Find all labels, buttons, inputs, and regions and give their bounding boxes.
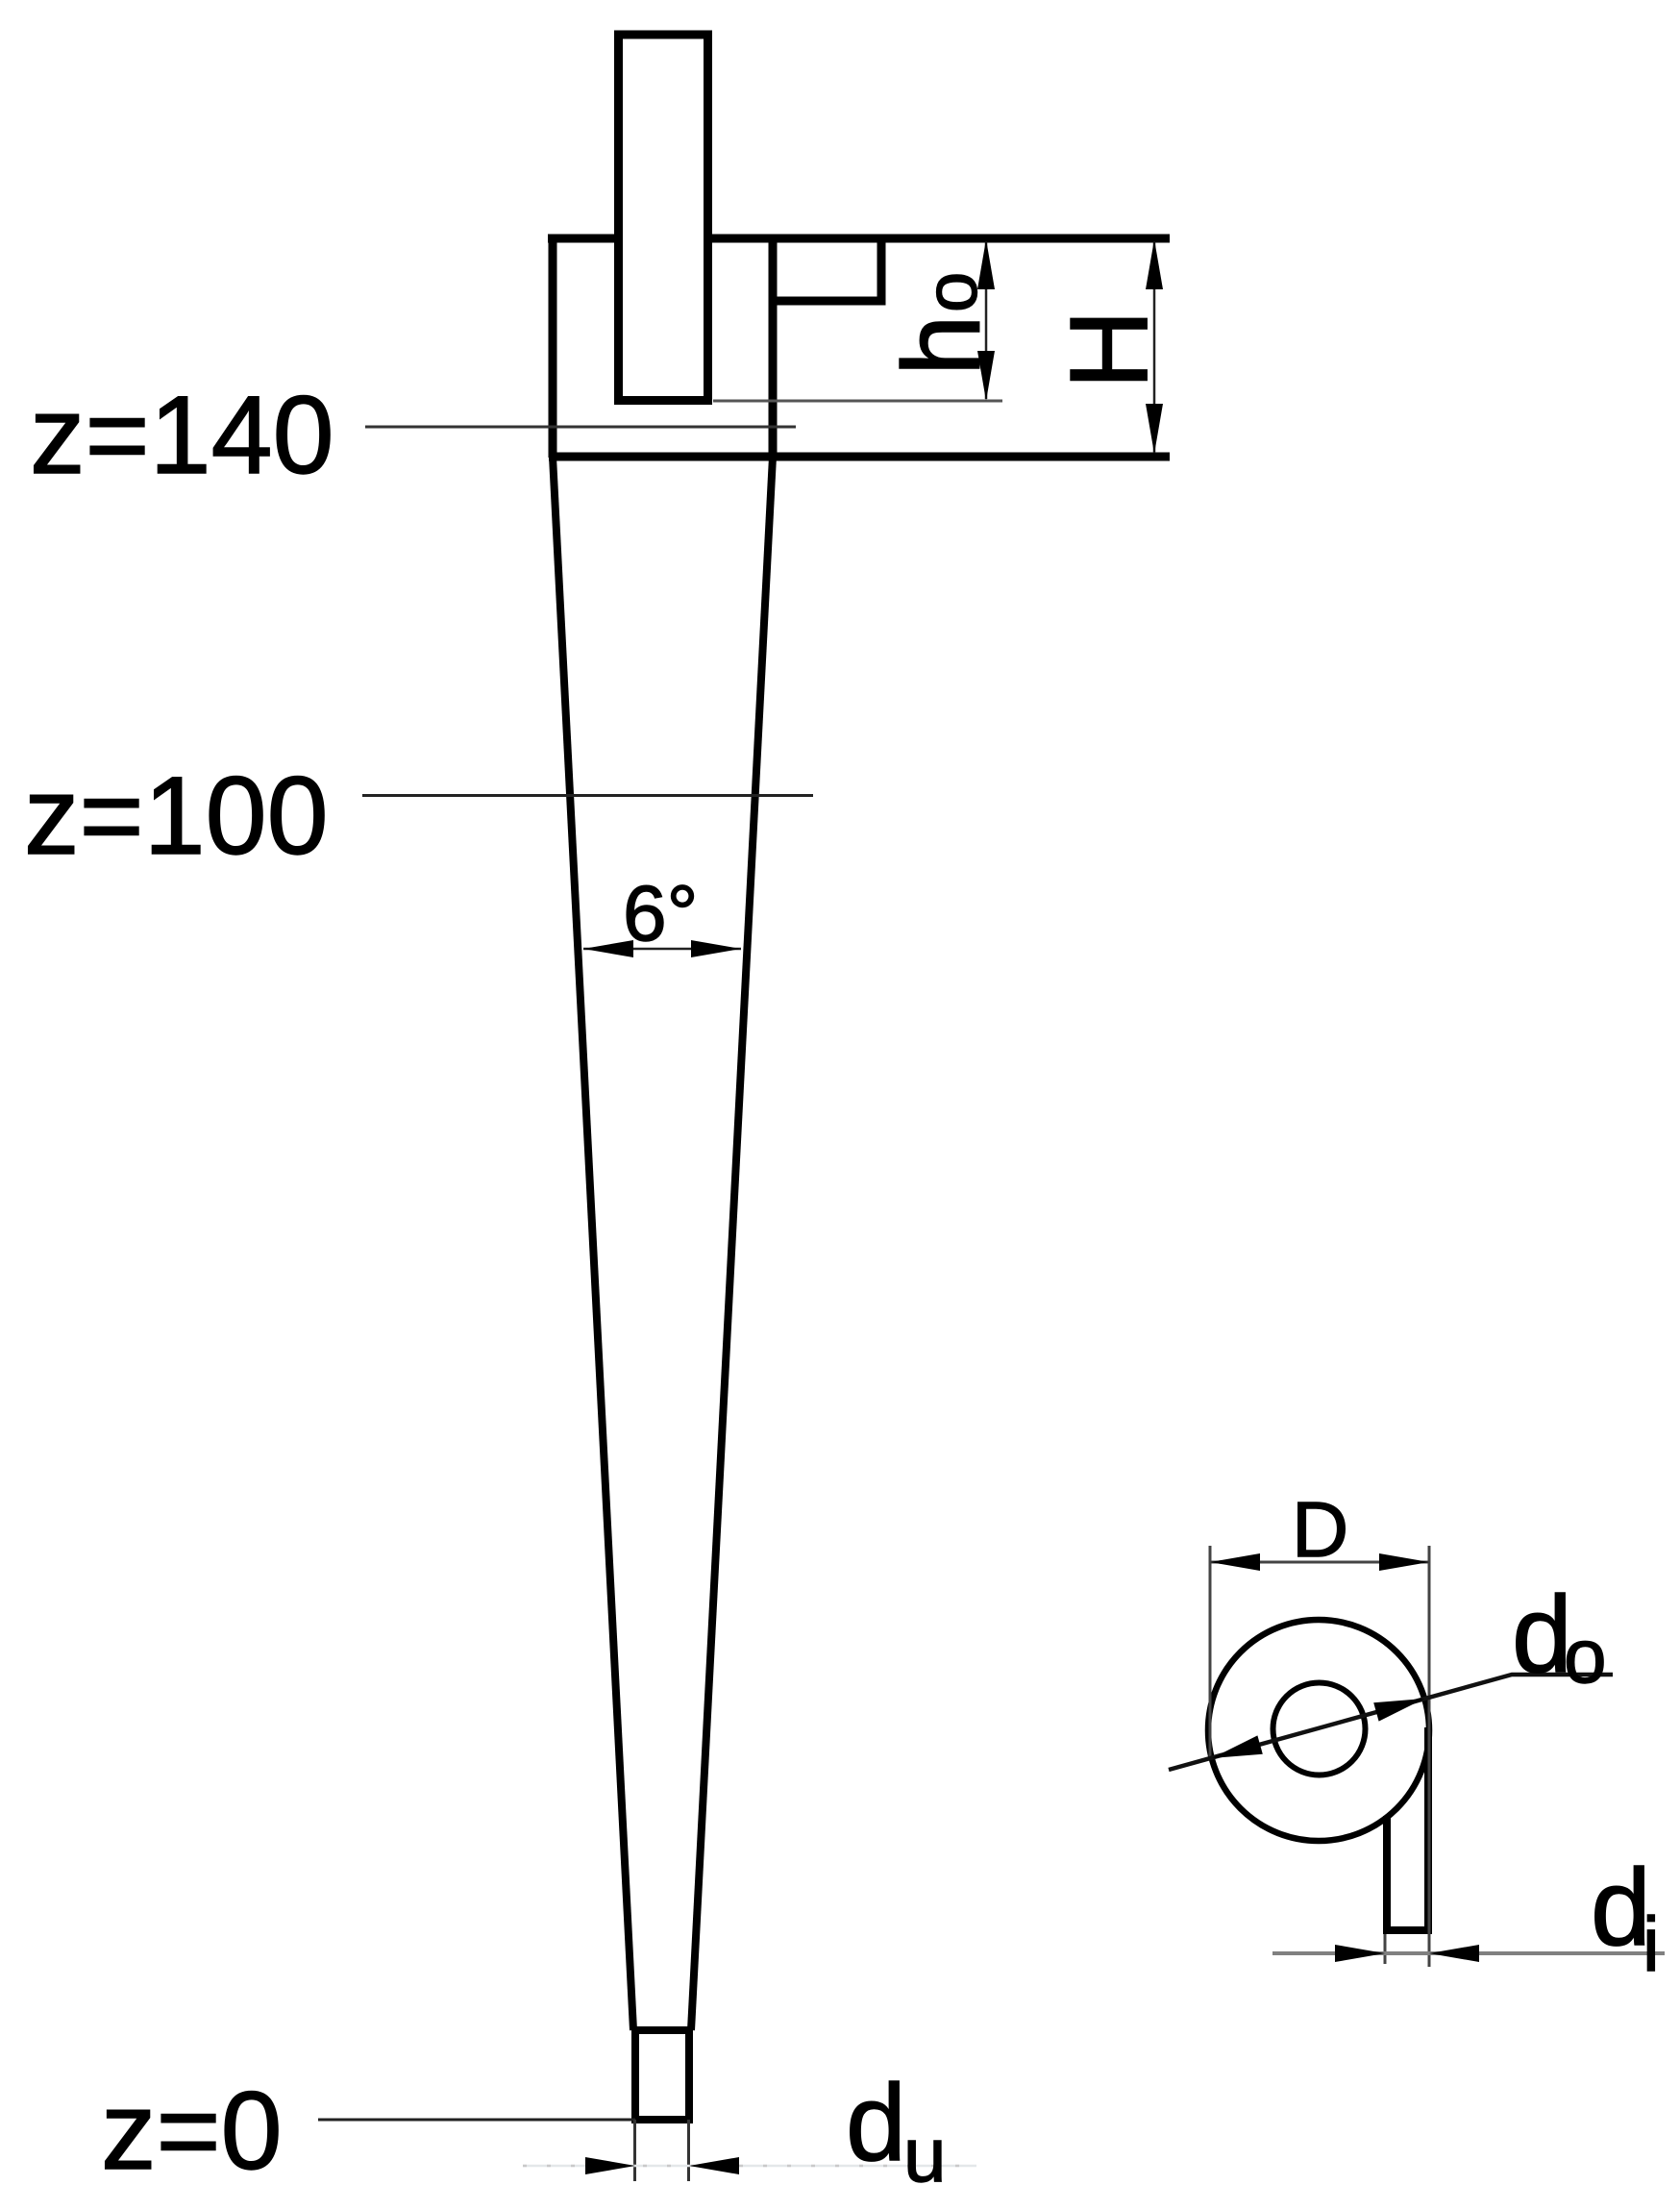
d_u arrow right bbox=[689, 2157, 739, 2174]
inlet pipe bottom bbox=[1383, 1926, 1432, 1934]
d_i arrow left bbox=[1335, 1945, 1385, 1962]
inlet pipe left edge bbox=[1383, 1816, 1391, 1934]
D extension line left bbox=[1209, 1546, 1212, 1759]
svg-text:z=100: z=100 bbox=[24, 755, 329, 878]
d_o leader diagonal bbox=[1169, 1675, 1613, 1770]
inlet step horizontal bbox=[769, 297, 886, 306]
d_o arrow upper-right bbox=[1373, 1699, 1424, 1722]
d_u dotted line dashes bbox=[523, 2165, 976, 2168]
svg-text:6°: 6° bbox=[623, 870, 698, 957]
top view outer circle bbox=[1208, 1620, 1429, 1841]
h_o arrow down bbox=[977, 351, 995, 401]
leader line z=140 bbox=[365, 426, 796, 429]
H arrow down bbox=[1146, 404, 1163, 454]
cylinder body top line bbox=[548, 235, 1170, 243]
svg-text:D: D bbox=[1292, 1486, 1348, 1574]
h_o arrow up bbox=[977, 239, 995, 289]
6 degree arrow right bbox=[691, 940, 741, 957]
D dimension line bbox=[1210, 1561, 1429, 1564]
cone left edge bbox=[553, 457, 633, 2030]
d_u arrow left bbox=[585, 2157, 635, 2174]
D arrow right bbox=[1379, 1553, 1429, 1571]
inlet step vertical bbox=[877, 238, 886, 301]
svg-text:z=0: z=0 bbox=[101, 2070, 283, 2193]
svg-text:o: o bbox=[911, 272, 993, 312]
leader line z=100 bbox=[362, 794, 813, 797]
h_o dimension line bbox=[985, 241, 988, 399]
svg-text:i: i bbox=[1643, 1901, 1660, 1987]
d_i dimension line bbox=[1272, 1951, 1665, 1955]
svg-text:z=140: z=140 bbox=[30, 374, 334, 497]
vortex finder tube (overflow pipe) bbox=[619, 35, 708, 401]
cylinder inner wall line bbox=[769, 235, 778, 459]
d_o arrow lower-left bbox=[1212, 1735, 1263, 1758]
svg-text:o: o bbox=[1564, 1613, 1607, 1699]
d_i arrow right bbox=[1429, 1945, 1479, 1962]
H dimension line bbox=[1153, 241, 1156, 453]
cylinder left wall bbox=[549, 235, 557, 459]
d_u dotted line base bbox=[523, 2165, 976, 2168]
H arrow up bbox=[1146, 239, 1163, 289]
leader line z=0 bbox=[318, 2119, 635, 2122]
cone right edge bbox=[691, 457, 773, 2030]
svg-text:d: d bbox=[846, 2062, 906, 2183]
6 degree arrow left bbox=[583, 940, 633, 957]
inlet pipe extension below left bbox=[1384, 1934, 1387, 1964]
d_u extension line right bbox=[687, 2120, 690, 2181]
svg-text:H: H bbox=[1048, 310, 1171, 389]
cylinder body bottom line bbox=[549, 453, 1170, 461]
d_u extension line left bbox=[633, 2120, 636, 2181]
apex spigot rectangle bbox=[635, 2030, 689, 2120]
svg-text:h: h bbox=[881, 315, 1003, 376]
inlet pipe right edge bbox=[1424, 1727, 1432, 1934]
D extension line right bbox=[1428, 1546, 1431, 1967]
h_o extension line bbox=[713, 400, 1002, 403]
6 degree dimension line bbox=[583, 948, 741, 951]
D arrow left bbox=[1210, 1553, 1260, 1571]
top view inner circle bbox=[1273, 1683, 1366, 1775]
svg-text:u: u bbox=[903, 2112, 947, 2198]
